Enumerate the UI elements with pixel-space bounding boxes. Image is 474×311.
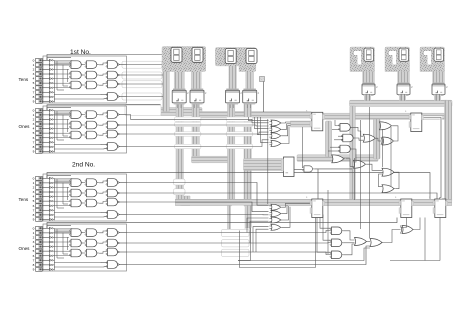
band H4 upper comparator bus xyxy=(297,155,378,162)
band BB bottom bus xyxy=(175,199,452,205)
block4 out1 xyxy=(127,231,332,233)
or gate c2d xyxy=(269,224,282,230)
svg-text:Ones: Ones xyxy=(19,246,31,251)
wrap channel wire from mux2 to mux5 xyxy=(424,118,441,198)
ribbon R3 chip B1 down to corner xyxy=(192,103,199,163)
taps to cluster2 lower inputs xyxy=(247,218,269,233)
and gate p2 xyxy=(330,239,344,247)
channel block1 out1 xyxy=(122,61,162,68)
mux5 xyxy=(433,199,448,218)
wire b1 o1 xyxy=(127,64,164,66)
band H3 into comparator xyxy=(244,159,284,171)
encoder block 4: 2nd No. Ones xyxy=(33,224,127,272)
channels around block4 long wires xyxy=(222,229,250,236)
channel inside R4/R5 below BB xyxy=(231,205,245,231)
channel block1 out4 xyxy=(122,93,162,100)
encoder block 3: 2nd No. Tens xyxy=(33,174,127,222)
cable trouser 2 xyxy=(215,48,255,91)
wire block1 bypass xyxy=(47,55,163,61)
or gate i xyxy=(382,185,395,193)
svg-text:Tens: Tens xyxy=(19,197,29,202)
band BG bus cluster1 to mux1 xyxy=(291,121,312,127)
svg-text:Tens: Tens xyxy=(19,77,29,82)
block2 outputs right to cluster1 xyxy=(127,115,269,123)
block4 bypass long wire xyxy=(47,218,397,229)
cluster1 output jogs xyxy=(282,122,291,123)
constant-1 symbol xyxy=(260,77,265,113)
or gate f xyxy=(380,122,393,130)
wire b1 o4 xyxy=(127,96,164,98)
clearance channels over vertical ribbons xyxy=(175,117,201,122)
channel block2 bypass xyxy=(125,104,161,115)
ribbon R5 chip B2 down xyxy=(244,103,251,228)
block3 out2 long xyxy=(127,193,438,199)
block3 out1 xyxy=(127,183,269,206)
band BR bus mux1 to mux2 xyxy=(322,113,445,119)
svg-text:Ones: Ones xyxy=(19,124,31,129)
block3 out3 xyxy=(127,202,269,212)
xor gate g xyxy=(381,137,395,145)
chip A1 xyxy=(172,89,186,105)
wire down into mux3 xyxy=(317,169,319,199)
channel block1 out2 xyxy=(122,72,162,79)
ribbon R2 chip A1 down to BB corner xyxy=(176,103,190,206)
or gate p4 xyxy=(355,238,368,246)
display unit 5 xyxy=(350,47,375,101)
svg-text:2nd No.: 2nd No. xyxy=(72,162,95,169)
channel wires over R2 xyxy=(174,179,186,185)
long bottom horizontals xyxy=(238,248,370,261)
wire block2 bypass xyxy=(47,105,161,111)
cable trouser 1 xyxy=(162,47,206,91)
encoder block 2: 1st No. Ones xyxy=(33,106,127,154)
and gate a xyxy=(339,124,353,132)
chip B2 xyxy=(243,89,257,105)
or gate c2a xyxy=(269,204,282,210)
channel block1 out3 xyxy=(122,81,162,88)
ribbon R6 down to H4 xyxy=(374,119,381,159)
display unit 7 xyxy=(420,47,445,101)
display B2 xyxy=(246,49,257,64)
or gate c1b xyxy=(269,126,282,132)
tiny chip labels xyxy=(187,85,448,95)
wire b3o4 tap to and p inputs xyxy=(320,215,332,229)
wire box to and j xyxy=(294,169,304,171)
or gate m xyxy=(363,134,376,142)
ribbon corner R3 right xyxy=(192,156,235,163)
ribbon R1 cable1 foot down to BL xyxy=(163,72,170,112)
tap wires to cluster1 upper inputs xyxy=(249,117,269,121)
mux4 xyxy=(399,199,414,218)
wire b1 o2 xyxy=(127,74,164,76)
band BL left horizontal bus xyxy=(160,108,202,116)
display A2 xyxy=(225,49,236,64)
or gate c2b xyxy=(269,211,282,217)
chip B1 xyxy=(190,89,204,105)
middle cluster wires xyxy=(335,120,340,126)
block4 out4 long xyxy=(127,246,371,265)
band BM middle horizontal bus xyxy=(199,112,312,119)
long vertical wires xyxy=(360,120,362,229)
wire and j output xyxy=(314,168,352,170)
wire b1 o3 xyxy=(127,83,164,85)
and gate b xyxy=(341,134,355,142)
mux2 xyxy=(409,113,424,132)
encoder block 1: 1st No. Tens xyxy=(33,56,127,104)
chip A2 xyxy=(226,89,240,105)
mux tiny labels xyxy=(306,110,431,200)
or gate d xyxy=(332,155,345,163)
or gate c1a xyxy=(269,120,282,126)
and gate p3 xyxy=(330,251,344,259)
and gate c xyxy=(339,145,353,153)
or gate c2c xyxy=(269,217,282,223)
band TR top right bus xyxy=(350,100,453,106)
ribbon V350 xyxy=(350,106,356,204)
or gate c1d xyxy=(269,141,282,147)
cable leg stripes pair2 xyxy=(229,66,237,90)
or gate c1c xyxy=(269,133,282,139)
ribbon R4 chip A2 down below BB xyxy=(228,103,235,231)
mux1 xyxy=(310,112,325,131)
block4 out3 xyxy=(127,252,332,255)
mux3 xyxy=(310,199,325,218)
ribbon wrap right vertical xyxy=(445,100,452,205)
display A1 xyxy=(171,47,182,62)
block3 bypass long wire xyxy=(47,173,430,199)
cluster2 output jogs xyxy=(282,203,312,207)
block3 out4 xyxy=(127,214,269,216)
bottom cluster wires xyxy=(344,231,355,240)
ribbon mux1 lower out down xyxy=(326,121,332,157)
display unit 6 xyxy=(385,47,410,101)
and gate p1 xyxy=(330,227,344,235)
xor gate p6 xyxy=(401,226,415,234)
and gate j xyxy=(303,166,314,172)
block4 out2 xyxy=(127,242,332,245)
or gate e xyxy=(354,160,367,168)
chip pin wires below chips xyxy=(178,105,251,109)
display B1 xyxy=(192,47,203,62)
svg-text:1st No.: 1st No. xyxy=(70,49,91,56)
or gate h xyxy=(382,168,395,176)
cable leg stripes pair1 xyxy=(174,72,184,90)
or gate p5 xyxy=(370,239,383,247)
